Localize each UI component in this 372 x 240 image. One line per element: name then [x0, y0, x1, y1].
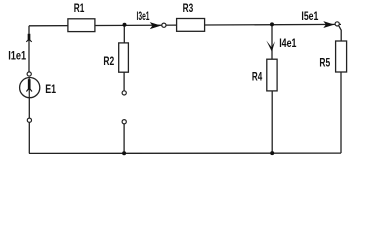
current arrow I5e1	[323, 21, 334, 28]
resistor R2	[119, 43, 129, 72]
wire R2 lower lead	[123, 72, 125, 91]
current arrow I1e1	[26, 34, 31, 42]
svg-text:E1: E1	[45, 82, 56, 96]
svg-text:I1e1: I1e1	[8, 48, 26, 62]
svg-text:R5: R5	[319, 56, 330, 70]
wire R4 upper lead	[271, 24, 273, 59]
resistor R3	[177, 19, 205, 32]
svg-text:R1: R1	[74, 1, 85, 15]
svg-text:R4: R4	[252, 69, 263, 83]
terminal above R2 bottom lead	[122, 120, 126, 124]
svg-text:I5e1: I5e1	[301, 9, 318, 23]
wire R5 branch lower	[340, 72, 342, 153]
current arrow I3e1	[150, 22, 161, 29]
wire R4 lower lead	[271, 91, 273, 153]
junction node R2 top	[123, 23, 127, 27]
resistor R5	[336, 41, 347, 72]
wire bottom horizontal	[29, 152, 341, 154]
source E1 circle	[20, 78, 40, 98]
wire E1 branch lower	[28, 97, 30, 153]
terminal on E1 lower lead	[27, 118, 31, 122]
current arrow I4e1	[266, 41, 275, 52]
resistor R1	[68, 19, 95, 32]
source E1 inner wire	[28, 78, 30, 98]
wire R5 branch top corner	[339, 26, 341, 41]
svg-text:I4e1: I4e1	[279, 36, 297, 50]
junction node R4 top	[270, 22, 274, 26]
svg-text:R3: R3	[183, 1, 194, 15]
wire R2 upper lead	[123, 25, 125, 43]
terminal on top wire (I3e1)	[162, 23, 166, 27]
terminal top right (I5e1)	[335, 22, 339, 26]
svg-text:I3e1: I3e1	[137, 9, 150, 23]
terminal above E1	[27, 72, 31, 76]
wire R2 bottom lead	[123, 124, 125, 154]
terminal below R2	[122, 91, 126, 95]
wire left vertical (E1 branch upper)	[28, 26, 30, 72]
source E1 arrow	[26, 79, 32, 91]
resistor R4	[267, 59, 277, 91]
junction node R2 bottom	[122, 151, 126, 155]
wire top horizontal	[29, 24, 341, 25]
junction node R4 bottom	[270, 151, 274, 155]
svg-text:R2: R2	[103, 54, 114, 68]
